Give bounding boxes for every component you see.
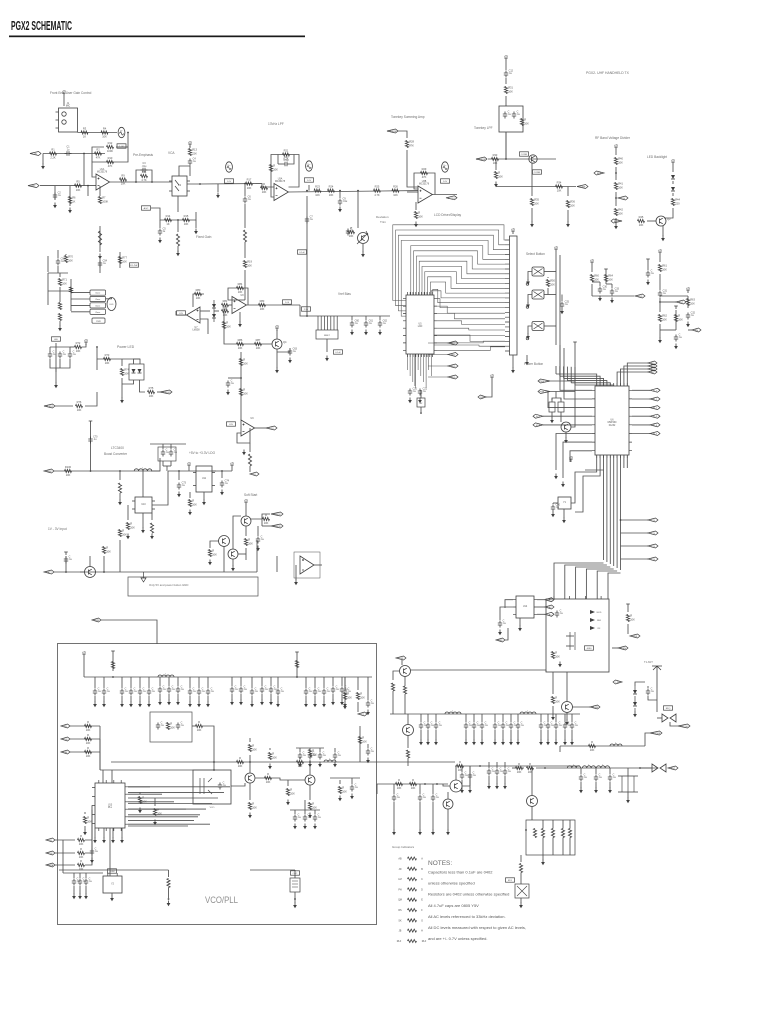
wire collector xyxy=(664,215,673,218)
ground rf556 xyxy=(554,740,558,746)
wire xyxy=(91,846,93,848)
wire cm 300 xyxy=(299,748,301,752)
svg-text:10K: 10K xyxy=(247,186,252,190)
wire mcu right5 xyxy=(632,424,650,426)
wire pa2 up xyxy=(531,768,533,796)
wire att top3 xyxy=(562,820,564,829)
wire drop 122 xyxy=(121,677,123,688)
ground xyxy=(220,490,224,496)
wire rfvd 541 xyxy=(540,730,542,740)
svg-text:R35: R35 xyxy=(534,198,539,202)
wire d2 252 xyxy=(251,696,253,702)
svg-text:R87: R87 xyxy=(256,338,261,342)
capacitor Crf421 xyxy=(419,721,428,729)
resistor R20 xyxy=(261,182,268,194)
inductor L3 xyxy=(445,710,461,714)
svg-text:10K: 10K xyxy=(124,372,129,376)
IC U14 xyxy=(513,596,537,618)
svg-text:10K: 10K xyxy=(157,812,162,816)
svg-text:TONE: TONE xyxy=(579,187,586,189)
svg-text:.1u: .1u xyxy=(163,688,167,691)
svg-text:CLK: CLK xyxy=(63,739,68,741)
switch SW2 xyxy=(532,290,544,299)
diode D11 xyxy=(633,702,637,706)
resistor R118 xyxy=(308,802,317,810)
wire bm2 xyxy=(168,888,170,899)
wire rfv 503 xyxy=(502,714,504,722)
wire gb 113 xyxy=(112,828,114,838)
ground gb122 xyxy=(120,838,124,844)
capacitor C6 xyxy=(243,195,252,203)
wire vref rail xyxy=(300,305,390,316)
wire att top xyxy=(542,820,544,829)
capacitor C54 xyxy=(98,259,108,267)
wire ss out2 xyxy=(262,525,271,527)
wire pll 2 xyxy=(55,852,75,854)
ground t3 xyxy=(120,702,124,708)
svg-text:10K: 10K xyxy=(62,282,67,286)
svg-text:.1u: .1u xyxy=(73,353,77,356)
ground xyxy=(153,820,157,826)
wire ss out1 xyxy=(251,514,270,519)
wire mcu top8 xyxy=(621,369,649,386)
page label PGX2- UHF HANDHELD TX xyxy=(586,71,630,75)
net ctl 2 xyxy=(61,737,70,741)
connector RF conn xyxy=(652,764,666,772)
wire out chain xyxy=(536,767,658,769)
ground sw 326 xyxy=(526,334,530,340)
node xyxy=(135,181,137,183)
transistor Q4 xyxy=(272,339,287,349)
ground att xyxy=(541,860,545,866)
net PWRBTN2 xyxy=(538,390,550,394)
node xyxy=(424,783,426,785)
ground xyxy=(518,626,522,632)
svg-text:.1u: .1u xyxy=(599,776,603,779)
wire xyxy=(96,359,98,370)
wire xyxy=(84,812,86,814)
wire vco out xyxy=(231,783,245,786)
wire to net xyxy=(157,391,160,393)
wire lcd net 4 xyxy=(428,376,448,378)
transistor Q7 xyxy=(228,549,238,559)
svg-text:10K: 10K xyxy=(618,186,623,190)
capacitor C40 xyxy=(551,503,561,511)
wire c30 xyxy=(599,282,601,286)
svg-text:.1u: .1u xyxy=(309,690,313,693)
transistor Q10 xyxy=(245,773,255,783)
capacitor Cx74 xyxy=(72,877,81,885)
wire pd row xyxy=(560,745,645,747)
svg-text:R36: R36 xyxy=(570,200,575,204)
wire out xyxy=(289,191,419,192)
ground rf548 xyxy=(546,740,550,746)
resistor R17 xyxy=(246,177,253,189)
wire d2 104 xyxy=(103,696,105,702)
wire q10 to q11 xyxy=(255,778,305,780)
resistor R107 xyxy=(244,538,253,546)
svg-text:R64: R64 xyxy=(608,274,613,278)
ground rf541 xyxy=(539,740,543,746)
svg-text:R: R xyxy=(498,171,500,175)
svg-text:VRF: VRF xyxy=(633,636,638,638)
ground xyxy=(68,208,72,214)
wire b3d 394 xyxy=(393,802,395,830)
svg-text:Select Button: Select Button xyxy=(526,252,545,256)
svg-text:10K: 10K xyxy=(329,193,334,197)
IC U6 MCU xyxy=(592,383,632,458)
label VCA xyxy=(168,151,175,155)
ground v169 xyxy=(167,700,171,706)
resistor R115 xyxy=(265,772,272,784)
svg-text:10K: 10K xyxy=(262,190,267,194)
opto LED circle xyxy=(107,298,116,311)
svg-text:VBAT: VBAT xyxy=(46,470,52,473)
wire entry xyxy=(83,657,85,677)
wire rfx 497 xyxy=(496,762,498,768)
svg-text:10K: 10K xyxy=(393,193,398,197)
wire bank bus xyxy=(70,279,72,311)
wire vdrop 232 xyxy=(231,677,233,686)
ground comb xyxy=(626,798,630,804)
label Deviation Trim xyxy=(376,215,389,219)
op-amp U1A xyxy=(96,168,110,190)
ground xyxy=(238,322,242,328)
svg-text:.1u: .1u xyxy=(327,690,331,693)
svg-text:220: 220 xyxy=(675,202,680,206)
wire oc2 xyxy=(512,767,524,769)
note line 6 xyxy=(428,925,526,930)
wire u7 in xyxy=(200,310,208,312)
power in flag xyxy=(89,421,93,424)
node xyxy=(65,571,67,573)
capacitor Cz295 xyxy=(293,813,302,821)
svg-text:10K: 10K xyxy=(618,212,623,216)
svg-text:.1u: .1u xyxy=(310,218,314,221)
ground cx80 xyxy=(78,894,82,900)
svg-text:R77: R77 xyxy=(122,256,127,260)
ground xyxy=(138,808,142,814)
svg-text:B: B xyxy=(421,868,423,871)
svg-text:.1u: .1u xyxy=(107,690,111,693)
power flag mcu xyxy=(569,456,574,462)
resistor R40 xyxy=(614,157,623,165)
resistor R24 xyxy=(328,184,335,196)
note line 3 xyxy=(428,892,509,897)
ground xyxy=(231,566,235,572)
power flag xyxy=(590,259,595,265)
wire r145 xyxy=(552,672,554,694)
wire pll in 2 xyxy=(85,810,92,853)
svg-text:R: R xyxy=(157,808,159,812)
wire u10 gnd xyxy=(142,513,144,528)
svg-text:.1u: .1u xyxy=(508,770,512,773)
svg-text:EN: EN xyxy=(695,330,698,332)
svg-text:10K: 10K xyxy=(290,792,295,796)
wire x3 dn xyxy=(294,892,296,903)
svg-text:AD: AD xyxy=(651,362,654,365)
wire d chain xyxy=(208,310,210,312)
svg-text:.1u: .1u xyxy=(172,688,176,691)
capacitor Crf565 xyxy=(563,721,572,729)
wire q4 base xyxy=(224,340,272,344)
wire u9 out xyxy=(255,427,267,429)
resistor R126 xyxy=(358,736,367,744)
wire xyxy=(63,96,65,106)
wire rfv 482 xyxy=(481,714,483,722)
LCD trace right 4 xyxy=(437,321,505,325)
VCO sub-box xyxy=(193,770,231,804)
svg-text:RF Band Voltage Divider: RF Band Voltage Divider xyxy=(595,136,631,140)
note line 2 xyxy=(428,881,475,886)
node xyxy=(119,470,121,472)
resistor R112 xyxy=(356,692,365,700)
wire xyxy=(672,181,674,184)
wire mcu top drop6 xyxy=(574,367,576,385)
wire ant2 xyxy=(656,688,658,712)
wire fixed gain loop xyxy=(160,212,196,220)
net MCUR6 xyxy=(650,432,660,436)
wire sw right 294.5 xyxy=(544,294,556,296)
svg-text:P1.0: P1.0 xyxy=(653,390,658,392)
svg-text:.1u: .1u xyxy=(69,558,73,561)
wire q6 c xyxy=(245,526,247,536)
capacitor Cv160 xyxy=(158,685,167,693)
capacitor Crf548 xyxy=(546,721,555,729)
resistor R113 xyxy=(166,722,175,730)
svg-text:10K: 10K xyxy=(678,318,683,322)
wire xyxy=(351,316,353,320)
svg-text:R2: R2 xyxy=(96,147,100,151)
wire top rail xyxy=(84,676,372,678)
wire q14 up xyxy=(455,766,457,780)
svg-text:.1u: .1u xyxy=(473,774,477,777)
wire tp3 xyxy=(308,185,310,191)
wire drop 358 xyxy=(357,677,359,690)
capacitor Cv271 xyxy=(269,685,278,693)
svg-text:RS: RS xyxy=(398,909,402,912)
wire rfvd 474 xyxy=(473,730,475,740)
wire lpd 596 xyxy=(595,782,597,788)
ground xyxy=(338,207,342,213)
svg-text:Y2: Y2 xyxy=(111,884,115,886)
ground v232 xyxy=(230,700,234,706)
wire emitter xyxy=(662,226,664,236)
resistor R28 xyxy=(405,140,414,148)
svg-text:CONN: CONN xyxy=(534,172,541,174)
wire pll dn xyxy=(109,828,111,840)
wire rp xyxy=(645,733,650,746)
wire xyxy=(334,748,336,752)
ground v342 xyxy=(340,700,344,706)
wire xyxy=(505,61,507,70)
svg-text:.1u: .1u xyxy=(615,290,619,293)
wire bz top xyxy=(420,390,422,398)
resistor R50 xyxy=(546,279,555,287)
wire mcu top6 xyxy=(575,385,614,386)
net RFbr1 xyxy=(648,518,658,522)
svg-text:PLL: PLL xyxy=(108,807,113,809)
svg-text:.1u: .1u xyxy=(193,160,197,163)
wire left col a xyxy=(47,256,49,272)
resistor R12b xyxy=(107,141,114,153)
svg-text:Trim: Trim xyxy=(380,220,386,224)
wire lcd net 1 xyxy=(428,342,448,344)
svg-text:.1u: .1u xyxy=(355,322,359,325)
wire pllr 5 xyxy=(128,816,198,818)
svg-text:.1u: .1u xyxy=(517,113,521,116)
wire pll 3 xyxy=(55,864,75,866)
transistor Q2 xyxy=(529,155,537,163)
svg-text:SEG: SEG xyxy=(451,343,456,345)
ground xyxy=(256,546,260,552)
wire q4 down xyxy=(276,349,278,360)
LCD bottom pin 6 xyxy=(420,354,422,376)
svg-text:R44: R44 xyxy=(675,198,680,202)
ground xyxy=(661,236,665,242)
ground lp610 xyxy=(608,788,612,794)
wire xyxy=(65,254,67,255)
wire branch 3 xyxy=(621,545,649,547)
wire pwr1 xyxy=(550,380,575,382)
wire left drop xyxy=(495,159,497,170)
switch bank box 5 xyxy=(92,318,105,323)
ground xyxy=(366,710,370,716)
svg-text:Pre-Emphasis: Pre-Emphasis xyxy=(133,153,153,157)
svg-text:R: R xyxy=(342,786,344,790)
wire u8 fb xyxy=(228,288,248,305)
resistor X1 xyxy=(58,303,61,310)
wire xyxy=(526,355,528,360)
wire xyxy=(376,784,378,794)
wire opamp out xyxy=(110,181,150,183)
svg-text:AUDIO: AUDIO xyxy=(448,197,455,200)
wire ctl dn 2 xyxy=(99,739,101,770)
wire pled2b xyxy=(85,392,97,406)
resistor R83 xyxy=(259,299,266,311)
svg-text:R75: R75 xyxy=(149,386,154,390)
svg-text:G: G xyxy=(421,919,423,922)
wire xyxy=(659,255,661,262)
capacitor C72 xyxy=(169,448,178,456)
svg-text:DAT: DAT xyxy=(63,751,68,754)
svg-text:unless otherwise specified: unless otherwise specified xyxy=(428,881,475,886)
switch terminal circle 271.5 xyxy=(526,283,529,286)
wire bundle to mod 6 xyxy=(608,573,621,599)
capacitor C87 xyxy=(350,783,359,791)
wire mcu top2 xyxy=(560,376,600,386)
capacitor C13 xyxy=(503,110,512,118)
svg-text:1K: 1K xyxy=(166,222,169,226)
wire xyxy=(178,471,180,480)
pot deviation trim xyxy=(358,233,369,244)
inductor L5 xyxy=(610,742,622,746)
svg-text:.1u: .1u xyxy=(521,724,525,727)
wire q14 drop 462 xyxy=(461,766,463,772)
resistor R105 xyxy=(102,546,111,554)
svg-text:R: R xyxy=(106,546,108,550)
wire xyxy=(245,548,247,560)
capacitor Cb420 xyxy=(418,793,427,801)
IC U13 PLL xyxy=(92,780,128,831)
svg-text:MC33178: MC33178 xyxy=(97,172,108,174)
resistor R2 xyxy=(95,147,102,159)
wire gb 104 xyxy=(103,828,105,838)
wire xyxy=(170,444,172,449)
LED D3 pair xyxy=(129,364,144,380)
label LCD Driver/Display xyxy=(434,213,462,217)
net MCUR1 xyxy=(650,388,660,392)
capacitor Cq462 xyxy=(460,771,469,779)
svg-text:10K: 10K xyxy=(142,800,147,804)
wire right inner xyxy=(344,677,346,690)
wire ant xyxy=(647,686,649,688)
wire sw left 271.5 xyxy=(528,272,532,280)
resistor Rc1 xyxy=(85,720,92,732)
svg-text:10K: 10K xyxy=(630,618,635,622)
wire att bot4 xyxy=(569,838,571,856)
ground t11 xyxy=(276,702,280,708)
wire xyxy=(687,296,689,308)
svg-text:.1u: .1u xyxy=(308,816,312,819)
wire xyxy=(189,492,191,498)
node tk xyxy=(505,158,507,160)
LCD trace right 7 xyxy=(437,341,505,343)
capacitor Ct13 xyxy=(313,687,322,695)
wire lp 610 xyxy=(609,768,611,774)
capacitor C86 xyxy=(90,847,99,855)
svg-text:R: R xyxy=(418,211,420,215)
ground b3394 xyxy=(392,830,396,836)
wire button bus xyxy=(555,252,557,345)
svg-text:All DC levels measured with re: All DC levels measured with respect to g… xyxy=(428,925,526,930)
capacitor C81 xyxy=(156,721,165,729)
svg-text:PLED2: PLED2 xyxy=(46,406,54,408)
LCD trace loop 12 xyxy=(430,282,505,295)
resistor R140 xyxy=(551,651,560,659)
svg-text:VCO/PLL: VCO/PLL xyxy=(205,895,238,906)
resistor Rp1 xyxy=(78,834,85,846)
svg-text:10K: 10K xyxy=(79,842,84,846)
diode leads2 xyxy=(634,686,636,712)
transistor Q14 xyxy=(450,780,462,792)
wire rfvd 572 xyxy=(571,730,573,740)
svg-text:R: R xyxy=(87,733,89,737)
capacitor Ct2 xyxy=(102,687,111,695)
wire rfvd 428 xyxy=(427,730,429,740)
LCD trace loop 2 xyxy=(396,230,505,306)
svg-text:10K: 10K xyxy=(192,503,197,507)
resistor R10 xyxy=(107,156,114,168)
svg-text:R: R xyxy=(630,614,632,618)
wire sw right 271.5 xyxy=(544,271,556,273)
LCD bottom pin 5 xyxy=(417,354,419,370)
wire vdrop 342 xyxy=(341,677,343,686)
wire mcu left4 xyxy=(543,415,592,417)
svg-text:MC33178: MC33178 xyxy=(275,181,286,183)
svg-text:OSC: OSC xyxy=(293,873,298,875)
filter block U4 xyxy=(499,106,523,132)
resistor pack RP2 xyxy=(558,399,564,412)
wire xyxy=(261,519,263,526)
svg-text:10K: 10K xyxy=(315,193,320,197)
svg-text:R: R xyxy=(347,692,349,696)
wire q14 drop 470 xyxy=(469,766,471,772)
capacitor Cz305 xyxy=(303,813,312,821)
wire rfv 572 xyxy=(571,714,573,722)
ground xyxy=(338,796,342,802)
svg-text:22K: 22K xyxy=(192,152,197,156)
